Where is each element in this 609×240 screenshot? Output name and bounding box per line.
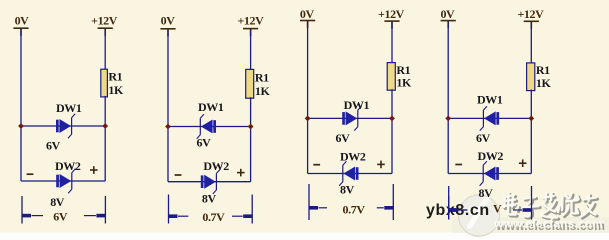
plus sign C4 [519,159,527,167]
plus sign C3 [377,161,385,169]
wire right rail upper C2 [250,30,252,71]
watermark light wash behind elecfans block [452,217,609,233]
watermark logo circle (elecfans) [458,192,499,238]
wire right rail lower C1 [104,96,106,181]
svg-text:8V: 8V [340,182,355,196]
svg-text:0V: 0V [440,7,455,21]
svg-text:V: V [493,202,502,216]
svg-text:0V: 0V [300,7,315,21]
wire left rail C4 [447,22,449,174]
svg-text:6V: 6V [476,131,491,145]
wire DW2 row C2 [168,181,251,183]
power port +12V [237,14,264,37]
power port +12V [517,7,544,29]
junction node right C1 [102,123,108,129]
svg-text:DW1: DW1 [56,101,82,115]
svg-text:0V: 0V [161,14,176,28]
svg-text:DW1: DW1 [344,98,370,112]
wire right rail upper C4 [530,22,532,64]
wire right rail upper C1 [104,29,106,70]
zener diode DW2 C3 [339,161,358,185]
svg-text:+12V: +12V [91,14,118,28]
zener diode DW2 C2 [201,170,220,194]
svg-text:+12V: +12V [378,7,405,21]
zener diode DW1 C2 [197,114,216,138]
svg-text:R1: R1 [108,70,122,84]
svg-text:6V: 6V [53,210,68,224]
minus sign C4 [455,164,462,166]
junction node left C2 [165,124,171,130]
svg-text:www.elecfans.com: www.elecfans.com [493,217,603,231]
svg-text:DW2: DW2 [55,159,81,173]
minus sign C2 [175,174,182,176]
svg-text:DW2: DW2 [203,159,229,173]
zener diode DW2 C4 [480,161,499,185]
junction node left C4 [445,116,451,122]
dimension arrows C1 [22,214,106,218]
junction node right C4 [528,116,534,122]
bottom white band [0,233,609,240]
zener diode DW1 C4 [480,106,499,130]
zener diode DW2 C1 [56,169,75,193]
svg-text:1K: 1K [255,84,271,98]
wire DW2 row C1 [21,180,105,182]
svg-text:8V: 8V [50,195,65,209]
wire DW2 row C4 [448,173,531,175]
svg-text:1K: 1K [536,76,552,90]
zener diode DW1 C1 [56,114,75,138]
minus sign C1 [27,173,34,175]
svg-text:R1: R1 [536,63,550,77]
svg-text:6V: 6V [46,139,61,153]
power port 0V [300,7,315,28]
resistor R1 1K [101,69,124,97]
junction node left C3 [305,116,311,122]
svg-text:0.7V: 0.7V [202,210,225,224]
junction node left C1 [18,123,24,129]
watermark chinese characters 电子发烧友 (stroke approximation) [503,193,598,219]
wire left rail C3 [307,22,309,174]
power port 0V [440,7,455,28]
minus sign C3 [313,164,320,166]
svg-text:8V: 8V [202,192,217,206]
resistor R1 1K [246,69,271,98]
dimension arrows C2 [168,214,253,218]
svg-text:1K: 1K [396,76,412,90]
svg-text:ybx8.cn: ybx8.cn [426,202,490,219]
wire right rail lower C2 [250,97,252,182]
power port 0V [160,14,175,37]
dimension arrows C4 [448,208,532,212]
wire left rail C2 [167,30,169,182]
wire DW2 row C3 [308,173,392,175]
wire right rail lower C4 [530,90,532,174]
power port +12V [91,14,118,36]
svg-text:DW1: DW1 [477,92,503,106]
dimension extension lines C4 [449,186,532,220]
wire right rail lower C3 [391,89,393,173]
dimension arrows C3 [309,206,394,210]
svg-text:DW1: DW1 [198,100,224,114]
dimension extension lines C3 [309,184,393,220]
zener diode DW1 C3 [342,106,361,130]
svg-text:8V: 8V [479,186,494,200]
plus sign C2 [237,169,245,177]
dimension arrow C4 redrawn over watermark [448,196,467,220]
resistor R1 1K [527,63,552,91]
svg-text:+12V: +12V [517,7,544,21]
svg-text:6V: 6V [336,131,351,145]
wire right rail upper C3 [391,22,393,63]
dimension extension lines C2 [169,195,253,224]
svg-text:DW2: DW2 [478,149,504,163]
dimension extension lines C1 [22,196,105,224]
junction node right C3 [389,116,395,122]
svg-text:0.7V: 0.7V [343,202,366,216]
plus sign C1 [90,166,98,174]
junction node right C2 [248,124,254,130]
power port 0V [13,14,29,36]
svg-text:0V: 0V [15,14,30,28]
wire DW1 row C2 [168,126,251,128]
wire DW1 row C3 [308,117,392,119]
wire DW1 row C4 [448,117,531,119]
wire DW1 row C1 [21,125,105,127]
svg-text:1K: 1K [108,83,124,97]
svg-text:DW2: DW2 [340,150,366,164]
svg-text:+12V: +12V [237,14,264,28]
svg-text:6V: 6V [197,135,212,149]
resistor R1 1K [387,63,412,91]
wire left rail C1 [20,29,22,181]
svg-text:R1: R1 [255,70,269,84]
power port +12V [378,7,405,29]
